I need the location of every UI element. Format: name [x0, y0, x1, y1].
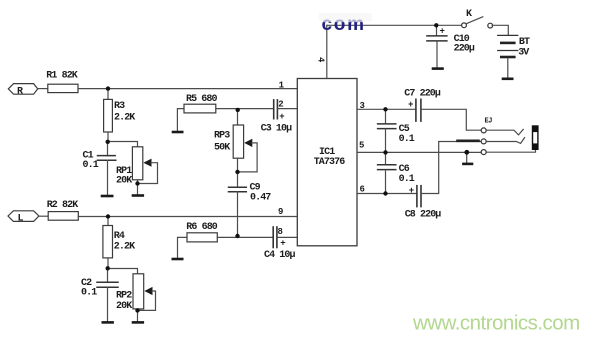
svg-text:C7 220µ: C7 220µ [404, 89, 441, 100]
svg-text:0.47: 0.47 [250, 193, 271, 204]
resistor R5 [184, 104, 216, 113]
svg-text:R6 680: R6 680 [186, 222, 218, 233]
svg-text:C8 220µ: C8 220µ [405, 210, 442, 221]
svg-text:R3: R3 [114, 101, 125, 112]
plug body [532, 126, 538, 150]
wire node to R4 [107, 217, 109, 226]
resistor R3 [104, 99, 113, 132]
wire RP2 to ground [137, 309, 139, 321]
svg-text:0.1: 0.1 [399, 174, 415, 185]
wire C6 to pin6 line [385, 170, 387, 194]
svg-text:C3 10µ: C3 10µ [261, 124, 293, 135]
node R5/RP3 [236, 108, 240, 112]
svg-text:RP3: RP3 [214, 131, 230, 142]
svg-text:0.1: 0.1 [81, 288, 97, 299]
node pin5/C6 [383, 150, 387, 154]
node RP2 wiper [135, 308, 139, 312]
svg-text:2.2K: 2.2K [114, 242, 135, 253]
capacitor C9 [229, 187, 247, 191]
node R4/C2/RP2 [106, 266, 110, 270]
capacitor C1 [98, 156, 116, 161]
svg-text:4: 4 [316, 57, 326, 63]
wire R5 to C3 [216, 108, 274, 110]
capacitor C10 [427, 36, 447, 41]
capacitor C8 [417, 186, 421, 207]
svg-text:+: + [279, 112, 284, 122]
potentiometer RP1 [132, 147, 142, 180]
svg-text:R5 680: R5 680 [186, 94, 218, 105]
ground jack [463, 152, 472, 164]
svg-text:BT: BT [519, 37, 530, 48]
svg-text:6: 6 [360, 184, 365, 194]
wire IC pin5 to jack [357, 151, 481, 153]
svg-text:R: R [17, 87, 23, 98]
resistor R1 [48, 84, 78, 92]
svg-text:3V: 3V [518, 48, 529, 59]
wire RP3 to C9 [237, 158, 239, 187]
jack tip spring [486, 129, 523, 135]
svg-text:2.2K: 2.2K [114, 113, 135, 124]
capacitor C4 [273, 227, 277, 248]
svg-text:+: + [409, 186, 414, 196]
wire C5 [385, 109, 387, 123]
svg-text:3: 3 [360, 101, 365, 111]
wire C9 to R6 line [237, 192, 239, 236]
ground RP1 [133, 194, 143, 197]
ground R5 [173, 109, 184, 132]
wire jack sleeve to plug [486, 149, 536, 152]
ground C1 [102, 195, 112, 198]
wire C4 to IC pin8 [277, 236, 297, 238]
wire node to R3 [107, 89, 109, 100]
node L-IN flag [8, 211, 39, 222]
svg-text:www.cntronics.com: www.cntronics.com [412, 312, 580, 335]
svg-text:EJ: EJ [485, 118, 493, 126]
wire R4 to junction [107, 258, 109, 269]
svg-text:1: 1 [279, 80, 285, 90]
wiper RP1 [138, 159, 158, 184]
ground C2 [103, 321, 113, 324]
capacitor C3 [274, 100, 278, 119]
ground RP2 [133, 321, 143, 324]
wiper RP2 [138, 287, 156, 311]
wire L flag to R2 [39, 215, 48, 217]
resistor R2 [48, 212, 78, 221]
svg-text:+: + [440, 27, 445, 37]
svg-text:L: L [18, 214, 24, 225]
svg-text:220µ: 220µ [454, 44, 475, 55]
wire C5 to pin5 line [385, 129, 387, 153]
jack ring spring [486, 138, 525, 144]
capacitor C6 [378, 165, 396, 170]
svg-text:+: + [408, 100, 413, 110]
svg-text:RP2: RP2 [116, 291, 132, 302]
potentiometer RP3 [233, 125, 243, 158]
node R2/R4 [106, 214, 110, 218]
watermark com remnant [318, 12, 374, 35]
wire top rail [327, 24, 462, 26]
earphone jack EJ contacts [481, 128, 486, 155]
wire C3 to IC pin2 [277, 108, 297, 110]
resistor R4 [103, 226, 113, 258]
svg-text:50K: 50K [214, 143, 230, 154]
node RP1 wiper [135, 181, 139, 185]
wire IC pin3 to C7 [357, 108, 416, 110]
wire R1 to IC pin1 [78, 88, 297, 90]
wire junction to RP2 [108, 269, 138, 274]
svg-text:C4 10µ: C4 10µ [264, 250, 296, 261]
wire junction to RP1 [108, 142, 138, 147]
op-amp IC1 box [297, 79, 357, 246]
wire C6 [385, 152, 387, 164]
svg-text:20K: 20K [116, 301, 132, 312]
wire R6 to C4 [217, 236, 273, 238]
ground BT [503, 78, 512, 81]
svg-text:+: + [280, 238, 285, 248]
node jack ground [464, 150, 469, 155]
node C9/R6 [235, 234, 239, 238]
node RP3 wiper [235, 170, 239, 174]
wiper RP3 [238, 139, 258, 172]
node pin3/C5 [383, 107, 387, 111]
node pin6/C8 [383, 191, 387, 195]
svg-text:5: 5 [359, 141, 364, 151]
wire C2 to ground [107, 287, 109, 321]
svg-text:K: K [466, 9, 472, 20]
jack break contact [458, 140, 479, 143]
svg-text:TA7376: TA7376 [314, 157, 346, 168]
wire junction to C2 [107, 269, 109, 283]
capacitor C2 [97, 282, 118, 287]
svg-text:R4: R4 [114, 231, 125, 242]
capacitor C7 [416, 99, 421, 121]
svg-text:9: 9 [278, 207, 283, 217]
wire junction to C1 [107, 142, 109, 156]
wire node to RP3 [237, 109, 239, 125]
ground R6 [173, 237, 187, 259]
wire R2 to IC pin9 [78, 216, 297, 218]
potentiometer RP2 [133, 274, 144, 309]
battery BT [498, 35, 518, 57]
wire IC pin6 to C8 [357, 193, 417, 195]
resistor R6 [187, 233, 217, 242]
svg-text:R1 82K: R1 82K [46, 71, 78, 82]
wire R3 to junction [107, 132, 109, 142]
wire C8 to jack ring [421, 142, 481, 194]
svg-text:0.1: 0.1 [399, 134, 415, 145]
wire K to battery [492, 25, 508, 35]
wire battery to ground [507, 58, 509, 77]
node R-IN flag [8, 84, 37, 95]
svg-text:8: 8 [278, 227, 283, 237]
svg-text:R2 82K: R2 82K [47, 200, 79, 211]
node R1/R3 [106, 86, 110, 90]
wire C10 [436, 25, 438, 36]
switch K [462, 17, 493, 28]
wire C1 to ground [107, 160, 109, 195]
svg-text:0.1: 0.1 [83, 160, 99, 171]
wire IC pin4 [326, 25, 328, 78]
ground C10 [433, 67, 443, 70]
wire RP1 to ground [137, 180, 139, 195]
svg-text:20K: 20K [116, 176, 132, 187]
node R3/C1/RP1 [106, 140, 110, 144]
node C10 [434, 23, 438, 27]
capacitor C5 [378, 124, 396, 129]
svg-text:2: 2 [278, 99, 283, 109]
wire R flag to R1 [38, 88, 48, 90]
wire C7 to jack tip [421, 109, 482, 130]
wire C10 to ground [436, 41, 438, 68]
